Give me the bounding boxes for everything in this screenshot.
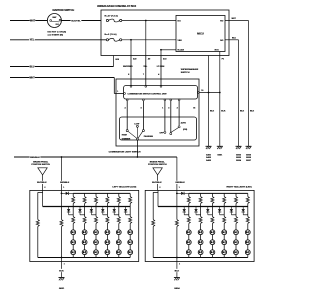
right LED column 6 (resistors, diode, LEDs) bbox=[242, 193, 250, 257]
wire RED/BLK tail feed bbox=[14, 156, 177, 158]
left LED column 2 (resistors, diode, LEDs) bbox=[78, 193, 86, 257]
combination switch assembly box bbox=[116, 79, 199, 146]
wire drop B-CAN to pin A13 bbox=[160, 50, 162, 56]
MICU U1 outline bbox=[176, 16, 225, 52]
ground G401 bbox=[206, 145, 212, 147]
wire MICU NO1/P1 to ground G501 bbox=[219, 52, 221, 147]
svg-text:No.2 (7.5 A): No.2 (7.5 A) bbox=[105, 33, 117, 36]
svg-text:BRAKE PEDAL: BRAKE PEDAL bbox=[150, 160, 166, 163]
svg-text:RED/BLK: RED/BLK bbox=[30, 157, 40, 159]
ground G503 bbox=[246, 145, 252, 147]
wire RED/BLK left tail drop bbox=[61, 157, 63, 190]
wire drop fuse2 to pin A22 bbox=[130, 40, 132, 56]
wire fuse27 to MICU IG1 bbox=[122, 20, 176, 22]
right LEDs column 4 bbox=[222, 230, 227, 255]
wire WHT battery feed bbox=[10, 20, 47, 22]
svg-text:1: 1 bbox=[64, 264, 65, 266]
left LEDs column 3 bbox=[94, 230, 99, 255]
svg-text:B18: B18 bbox=[116, 59, 119, 61]
svg-text:MICU: MICU bbox=[197, 31, 204, 35]
svg-text:LOW: LOW bbox=[134, 124, 139, 126]
right LEDs column 2 bbox=[198, 230, 203, 255]
light switch drop 3 bbox=[170, 101, 172, 133]
right stop bus bbox=[189, 192, 248, 194]
svg-text:BLU: BLU bbox=[232, 38, 237, 40]
left stop bus bbox=[73, 192, 130, 194]
svg-text:WHT/RED: WHT/RED bbox=[123, 66, 133, 68]
dimmer switch drop 5 bbox=[142, 101, 144, 130]
left LED column 6 (resistors, diode, LEDs) bbox=[124, 193, 132, 257]
ground G501 bbox=[217, 145, 223, 147]
svg-text:BLK: BLK bbox=[210, 111, 215, 113]
svg-text:POSITION SWITCH: POSITION SWITCH bbox=[148, 164, 167, 166]
left LEDs column 2 bbox=[82, 230, 87, 255]
right LEDs column 5 bbox=[234, 230, 239, 255]
svg-text:NO: NO bbox=[220, 40, 223, 42]
right dummy resistor branch 2 bbox=[176, 207, 178, 220]
wire drop LT GRN pin 4 bbox=[160, 56, 162, 86]
ground G502 bbox=[236, 145, 242, 147]
svg-text:WHT: WHT bbox=[29, 77, 35, 79]
left taillight box bbox=[30, 190, 139, 261]
dimmer switch arms bbox=[128, 131, 137, 138]
svg-text:G604: G604 bbox=[174, 287, 180, 290]
left LEDs column 4 bbox=[105, 230, 110, 255]
svg-text:AUTO: AUTO bbox=[181, 121, 187, 124]
left LEDs column 1 bbox=[71, 230, 76, 255]
wire MICU RO to ground G503 bbox=[225, 20, 249, 22]
control unit left pin bbox=[124, 93, 126, 95]
right pin B drop bbox=[176, 190, 178, 206]
wire drop WHT/RED pin 8 bbox=[130, 56, 132, 86]
dimmer switch drop 4 bbox=[126, 101, 128, 130]
right LED column 5 (resistors, diode, LEDs) bbox=[230, 193, 238, 257]
svg-text:IGNITION SWITCH: IGNITION SWITCH bbox=[53, 9, 75, 12]
light switch arm bbox=[170, 128, 178, 133]
svg-text:COMBINATION LIGHT SWITCH: COMBINATION LIGHT SWITCH bbox=[109, 151, 141, 154]
svg-text:G501: G501 bbox=[217, 155, 223, 157]
light switch inner box bbox=[120, 117, 197, 140]
svg-text:POSITION SWITCH: POSITION SWITCH bbox=[31, 164, 50, 166]
left diode D1 bbox=[62, 192, 66, 194]
svg-text:2: 2 bbox=[159, 187, 160, 189]
svg-text:2: 2 bbox=[44, 187, 45, 189]
control unit bottom pins bbox=[126, 99, 128, 101]
svg-text:OFF: OFF bbox=[159, 132, 164, 134]
svg-text:WHT/BLK: WHT/BLK bbox=[152, 182, 162, 184]
brake pedal position switch triangle left bbox=[38, 168, 47, 175]
ignition switch SW1 bbox=[47, 14, 61, 28]
switch common wire bbox=[136, 140, 138, 157]
wire MICU B-CAN bbox=[161, 49, 176, 51]
svg-text:A22: A22 bbox=[133, 58, 136, 61]
wire WHT to control unit bbox=[10, 77, 114, 79]
left dummy resistor branch 2 bbox=[61, 207, 63, 220]
svg-text:1: 1 bbox=[179, 187, 180, 189]
svg-text:No.27 (7.5 A): No.27 (7.5 A) bbox=[105, 15, 118, 18]
svg-text:WHT: WHT bbox=[30, 20, 36, 22]
right bottom bus bbox=[153, 257, 248, 259]
wire fuse box pin to ground G401 bbox=[208, 56, 210, 147]
right dummy resistor branch 1 bbox=[153, 191, 158, 193]
left bottom bus bbox=[38, 257, 130, 259]
combination switch control unit bbox=[124, 86, 198, 100]
svg-text:A9: A9 bbox=[148, 58, 150, 61]
svg-text:VBU: VBU bbox=[178, 40, 183, 42]
left pin A drop bbox=[42, 190, 44, 206]
svg-text:BLK: BLK bbox=[250, 111, 255, 113]
svg-text:LEFT TAILLIGHT (LED): LEFT TAILLIGHT (LED) bbox=[112, 186, 136, 189]
svg-text:WIPER/WASHER: WIPER/WASHER bbox=[181, 68, 199, 71]
right LEDs column 6 bbox=[245, 230, 250, 255]
wire drop YEL pin 7 bbox=[145, 56, 147, 86]
right LED column 2 (resistors, diode, LEDs) bbox=[194, 193, 202, 257]
light switch drop 2 bbox=[178, 101, 180, 126]
left LEDs column 5 bbox=[116, 230, 121, 255]
brake pedal position switch triangle right bbox=[153, 168, 162, 175]
wire WHT/BLK right stop bbox=[157, 175, 159, 191]
right LED column 1 (resistors, diode, LEDs) bbox=[183, 193, 191, 257]
wire fuse2 to MICU VBU bbox=[122, 39, 176, 41]
wire BLK/YEL ignition to fuse box bbox=[61, 20, 101, 22]
svg-text:YEL: YEL bbox=[30, 40, 35, 42]
left ground G601 bbox=[59, 277, 65, 279]
right diode D1 bbox=[177, 192, 181, 194]
svg-text:RED/BLK: RED/BLK bbox=[60, 182, 70, 184]
svg-text:WHT/BLK: WHT/BLK bbox=[37, 182, 47, 184]
svg-text:BLU: BLU bbox=[30, 66, 35, 68]
svg-text:BLK: BLK bbox=[240, 111, 245, 113]
svg-text:RED/BLK: RED/BLK bbox=[175, 182, 185, 184]
left LED column 5 (resistors, diode, LEDs) bbox=[113, 193, 121, 257]
wire drop fuse27 to pin A9 bbox=[145, 21, 147, 56]
right taillight box bbox=[145, 190, 254, 261]
svg-text:UNDER-DASH FUSE/RELAY BOX: UNDER-DASH FUSE/RELAY BOX bbox=[97, 5, 137, 8]
svg-text:LT GRN: LT GRN bbox=[157, 66, 165, 68]
dimmer switch contacts bbox=[126, 130, 128, 132]
svg-text:BRAKE PEDAL: BRAKE PEDAL bbox=[33, 160, 49, 163]
svg-text:SWITCH: SWITCH bbox=[181, 72, 190, 74]
wire WHT/BLK left stop bbox=[42, 175, 44, 191]
wire MICU NO to ground G502 bbox=[225, 39, 239, 41]
light switch contacts bbox=[164, 131, 166, 133]
svg-text:and START (III): and START (III) bbox=[48, 33, 64, 36]
svg-text:B-CAN: B-CAN bbox=[178, 49, 185, 52]
right LED column 3 (resistors, diode, LEDs) bbox=[206, 193, 214, 257]
control unit top pins bbox=[130, 86, 132, 88]
svg-text:A13: A13 bbox=[163, 58, 166, 61]
svg-text:DIMMER: DIMMER bbox=[122, 139, 131, 141]
svg-text:COMBINATION SWITCH CONTROL UNI: COMBINATION SWITCH CONTROL UNIT bbox=[128, 92, 168, 95]
wire BLU to fuse box pin B18 bbox=[10, 66, 114, 68]
svg-text:BLK/YEL: BLK/YEL bbox=[71, 20, 81, 22]
right LEDs column 3 bbox=[210, 230, 215, 255]
right ground wire BLK bbox=[176, 258, 178, 278]
svg-text:RO: RO bbox=[220, 20, 223, 22]
wire RED/BLK right tail drop bbox=[176, 157, 178, 190]
svg-text:BLK: BLK bbox=[59, 270, 64, 272]
svg-text:IG1 HOT in ON (II): IG1 HOT in ON (II) bbox=[48, 32, 67, 34]
light switch drop 1 bbox=[164, 101, 166, 132]
svg-text:(ON): (ON) bbox=[183, 129, 187, 131]
left tail bus bbox=[43, 206, 131, 208]
right tail bus bbox=[158, 206, 248, 208]
left pin B drop bbox=[61, 190, 63, 206]
svg-text:1: 1 bbox=[179, 264, 180, 266]
left LED column 3 (resistors, diode, LEDs) bbox=[90, 193, 98, 257]
wire YEL battery to fuse No.2 bbox=[10, 39, 106, 41]
svg-text:RIGHT TAILLIGHT (LED): RIGHT TAILLIGHT (LED) bbox=[226, 186, 251, 189]
right LED column 4 (resistors, diode, LEDs) bbox=[218, 193, 226, 257]
left LEDs column 6 bbox=[128, 230, 133, 255]
left dummy resistor branch 1 bbox=[38, 191, 43, 193]
control unit right pin wire to ground bbox=[198, 92, 200, 94]
left ground wire BLK bbox=[61, 258, 63, 278]
svg-text:BLK: BLK bbox=[175, 270, 180, 272]
right ground G604 bbox=[174, 277, 180, 279]
right LEDs column 1 bbox=[186, 230, 191, 255]
under-dash fuse/relay box outline bbox=[101, 10, 229, 56]
svg-text:PASSING: PASSING bbox=[144, 135, 154, 138]
svg-text:1: 1 bbox=[63, 187, 64, 189]
left LED column 1 (resistors, diode, LEDs) bbox=[67, 193, 75, 257]
svg-text:1: 1 bbox=[117, 91, 118, 93]
svg-text:10: 10 bbox=[201, 90, 203, 92]
right pin A drop bbox=[157, 190, 159, 206]
svg-text:BLK: BLK bbox=[221, 111, 226, 113]
svg-text:G601: G601 bbox=[59, 288, 65, 290]
left LED column 4 (resistors, diode, LEDs) bbox=[101, 193, 109, 257]
svg-text:HIGH: HIGH bbox=[122, 135, 128, 137]
